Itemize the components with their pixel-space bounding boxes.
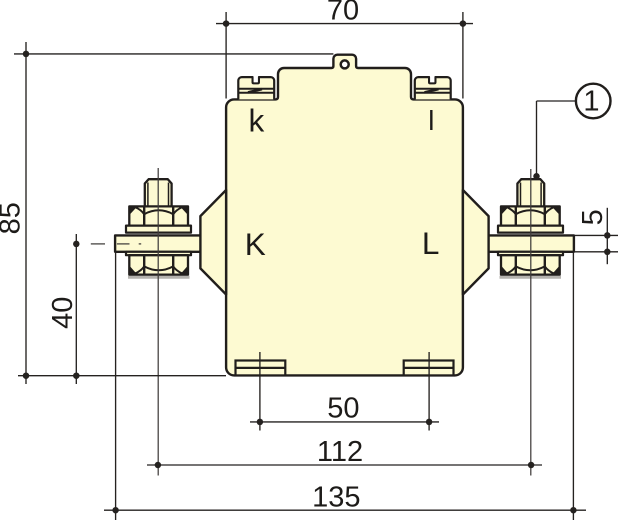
svg-text:K: K	[245, 226, 266, 262]
svg-text:135: 135	[312, 481, 360, 513]
svg-text:112: 112	[317, 436, 363, 468]
svg-text:70: 70	[327, 0, 359, 26]
svg-text:1: 1	[583, 86, 599, 118]
svg-text:50: 50	[327, 392, 359, 424]
svg-text:85: 85	[0, 202, 27, 234]
svg-text:40: 40	[47, 297, 79, 329]
svg-text:5: 5	[577, 209, 609, 225]
svg-text:L: L	[422, 225, 440, 261]
svg-text:l: l	[428, 105, 434, 136]
svg-text:k: k	[249, 102, 265, 138]
